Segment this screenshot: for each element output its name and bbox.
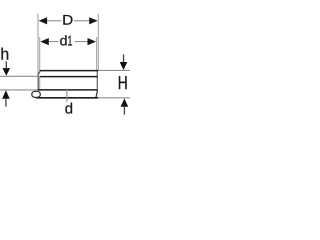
dimension d1 shaft right <box>75 41 88 43</box>
dimension h down arrowhead <box>3 68 11 76</box>
dimension D shaft right <box>74 20 90 22</box>
lower right wall <box>96 71 98 91</box>
inner right wall / d1 extension line <box>96 37 98 71</box>
dimension d1 shaft left <box>48 41 58 43</box>
H top extension line <box>98 69 130 71</box>
lower left wall emphasis <box>37 74 39 90</box>
label H <box>119 76 127 89</box>
label d1 <box>60 35 66 45</box>
d leader line <box>66 89 68 102</box>
dimension D left arrowhead <box>39 17 48 24</box>
label d <box>65 103 72 114</box>
dimension H top stem <box>123 54 125 62</box>
inner step line Y0b <box>40 76 98 78</box>
label h <box>2 48 9 60</box>
label D <box>63 15 72 25</box>
bottom edge Y3 <box>36 97 98 99</box>
dimension d1 left arrowhead <box>40 38 49 45</box>
left bead (sealing ring stadium) <box>32 91 41 97</box>
dimension h top stem <box>5 61 7 68</box>
left shoulder curve <box>38 71 40 75</box>
outer right wall / D extension line <box>97 14 99 71</box>
dimension D shaft left <box>47 20 62 22</box>
H bottom extension line <box>98 97 130 99</box>
dimension H down arrowhead <box>120 62 128 70</box>
dimension H bottom stem <box>123 107 125 115</box>
inner left wall lower segment <box>39 77 41 90</box>
dimension H up arrowhead <box>121 98 129 106</box>
inner left wall / d1 extension line <box>39 37 41 71</box>
flange top line Y2 <box>38 89 97 91</box>
right bead chamfer <box>96 91 98 98</box>
dimension h bottom stem <box>5 99 7 107</box>
h top extension line <box>0 75 38 77</box>
dimension h up arrowhead <box>2 90 10 98</box>
dimension D right arrowhead <box>89 17 98 24</box>
dimension d1 right arrowhead <box>88 38 97 45</box>
socket bottom line Y1 <box>40 70 99 72</box>
h bottom extension line <box>0 89 38 91</box>
outer left wall / D extension line <box>37 14 39 91</box>
